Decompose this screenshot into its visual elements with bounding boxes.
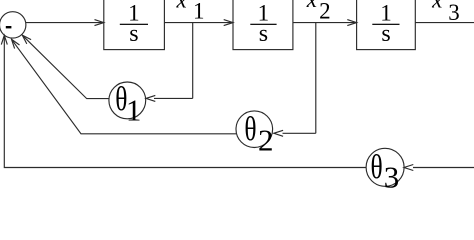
arrow into G2 bbox=[224, 20, 233, 26]
arrow into S from theta1 bbox=[22, 35, 31, 44]
wire G1 to G2 bbox=[164, 22, 231, 24]
fraction bar G3 bbox=[372, 24, 399, 25]
gain circle theta3 bbox=[366, 148, 404, 186]
wire tap2 to theta2 bbox=[283, 132, 316, 134]
integrator block G2 bbox=[233, 0, 293, 50]
svg-text:2: 2 bbox=[319, 0, 331, 23]
arrow into S from theta3 bbox=[1, 35, 7, 44]
fraction bar G2 bbox=[250, 24, 276, 25]
integrator block G1 bbox=[104, 0, 165, 50]
node x1 tap wire down bbox=[192, 23, 194, 99]
summing junction S bbox=[0, 12, 26, 38]
svg-text:s: s bbox=[259, 21, 268, 47]
svg-text:θ: θ bbox=[244, 111, 256, 148]
integrator block G3 bbox=[357, 0, 416, 50]
wire x3 feedback from right edge to theta3 bbox=[413, 167, 474, 169]
wire G2 to G3 bbox=[293, 22, 355, 24]
svg-text:3: 3 bbox=[448, 0, 460, 25]
gain circle theta2 bbox=[236, 111, 273, 148]
node x2 tap wire down bbox=[315, 23, 317, 134]
arrow into G3 bbox=[347, 20, 356, 26]
arrow into G1 bbox=[95, 20, 104, 26]
wire tap1 to theta1 bbox=[154, 97, 193, 99]
gain circle theta1 bbox=[109, 82, 146, 119]
wire theta2 left + diagonal to S bbox=[12, 39, 237, 134]
wire S to G1 bbox=[26, 22, 102, 24]
svg-text:1: 1 bbox=[126, 93, 142, 128]
svg-text:1: 1 bbox=[193, 0, 205, 23]
svg-text:3: 3 bbox=[384, 160, 400, 188]
svg-text:x: x bbox=[175, 0, 187, 13]
arrow into S from theta2 bbox=[12, 39, 20, 48]
svg-text:x: x bbox=[431, 0, 443, 13]
arrow into theta1 bbox=[146, 95, 155, 101]
svg-text:x: x bbox=[306, 0, 318, 12]
svg-text:2: 2 bbox=[258, 122, 274, 157]
fraction bar G1 bbox=[120, 24, 148, 25]
svg-text:s: s bbox=[381, 21, 390, 47]
arrow into theta2 bbox=[274, 130, 283, 136]
wire theta3 left along bottom and up to S bbox=[4, 37, 366, 168]
wire theta1 left + diagonal to S bbox=[22, 35, 109, 98]
svg-text:s: s bbox=[129, 21, 138, 47]
svg-text:θ: θ bbox=[371, 149, 383, 186]
wire G3 output to edge bbox=[415, 22, 474, 24]
minus sign in summing junction bbox=[6, 26, 12, 28]
arrow into theta3 bbox=[404, 165, 413, 171]
